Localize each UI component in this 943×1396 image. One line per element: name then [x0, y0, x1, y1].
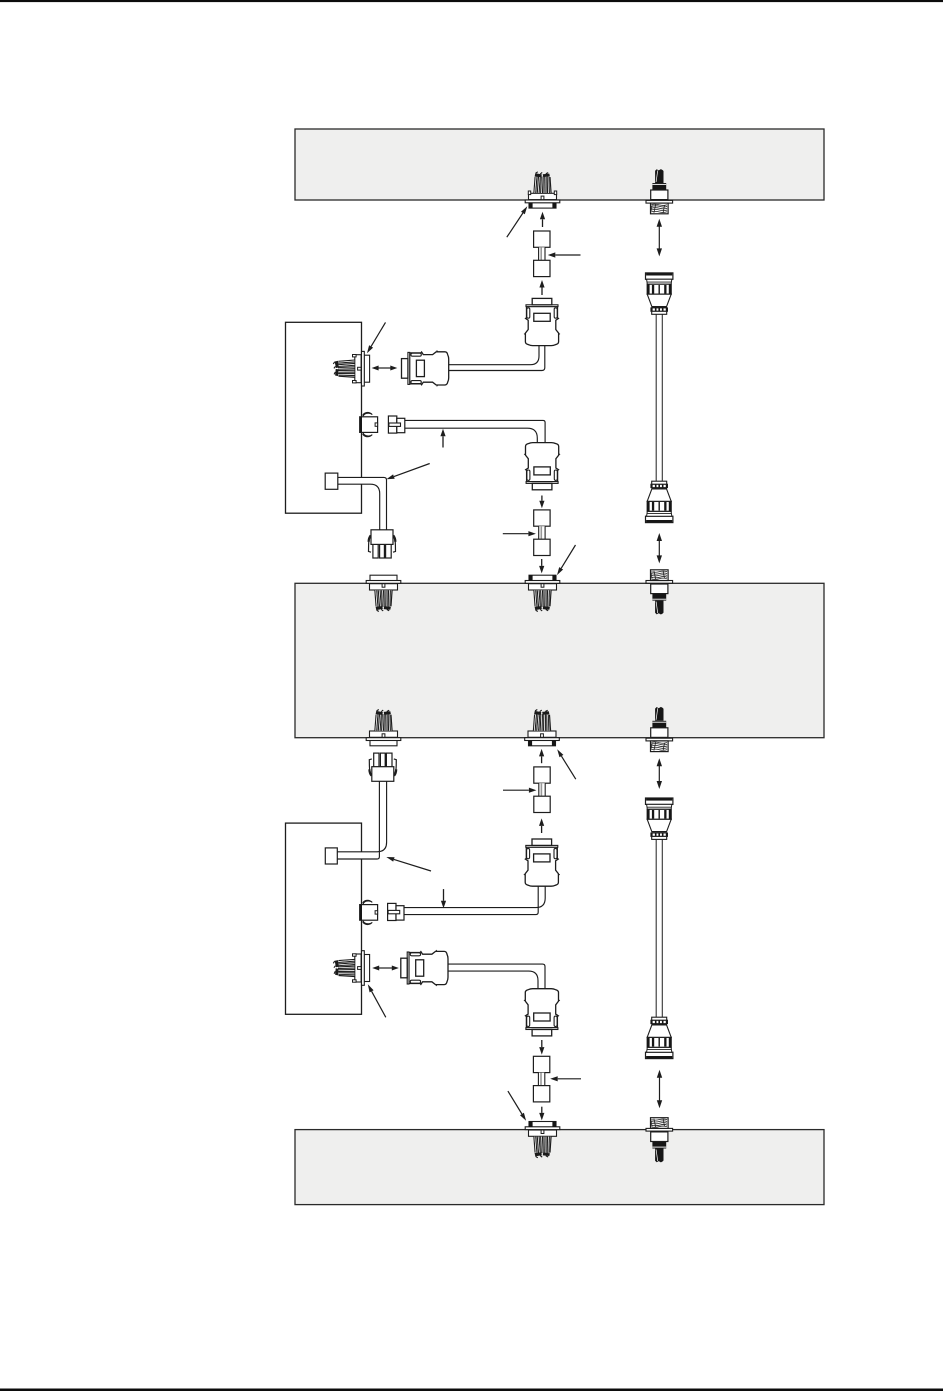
right interconnect cable (upper): [655, 313, 657, 482]
leader arrow D7: [368, 984, 386, 1017]
horizontal D-sub connector H1: [402, 350, 449, 386]
double arrow DH2: [372, 966, 399, 971]
module Q1 in upper accessory box: [325, 473, 338, 489]
coax bulkhead connector on middle unit bottom: [646, 707, 673, 752]
coax bulkhead connector on middle unit top: [646, 570, 673, 615]
ferrite clamp F4: [533, 1056, 549, 1102]
cable from horizontal D-sub to vertical D-sub V1: [444, 344, 542, 368]
insertion arrow A7: [539, 818, 544, 833]
double arrow DA1: [657, 219, 662, 257]
harness connector on lower accessory box edge: [333, 951, 369, 986]
harness connector on top unit (bottom edge): [525, 172, 560, 208]
leader arrow D1: [507, 206, 528, 237]
insertion arrow A1: [540, 212, 545, 227]
coax bulkhead connector on top unit: [646, 169, 673, 214]
top unit box: [295, 129, 824, 200]
leader arrow D4: [557, 545, 576, 575]
harness connector on bottom unit top edge: [525, 1122, 560, 1158]
coax bulkhead connector on bottom unit: [646, 1118, 673, 1163]
insertion arrow A8: [441, 889, 446, 908]
insertion arrow A10: [539, 1107, 544, 1121]
cable from 4-pin plug to module Q2: [337, 780, 383, 855]
leader arrow D6: [386, 857, 431, 871]
top page border bar: [0, 0, 943, 2]
harness connector on middle unit top edge, left: [366, 575, 401, 611]
ferrite clamp F3: [534, 767, 550, 813]
cable from 2-wire plug to vertical D-sub V2: [404, 424, 541, 445]
harness connector on middle unit bottom edge, left: [366, 710, 401, 746]
double arrow DA3: [657, 758, 662, 789]
2-wire plug, lower: [388, 903, 404, 920]
vertical D-sub connector V4: [524, 989, 560, 1036]
upper accessory box outline: [286, 322, 362, 513]
molded connector, upper cable top end: [646, 273, 673, 314]
ferrite clamp F1: [534, 231, 550, 277]
molded connector, lower cable bottom end: [646, 1017, 673, 1058]
4-pin plug, lower (facing up): [369, 753, 396, 781]
harness connector on upper accessory box edge: [333, 351, 369, 386]
4-pin plug, upper (facing down): [369, 530, 396, 558]
leader arrow H3: [503, 788, 536, 793]
double arrow DA4: [657, 1070, 662, 1109]
cable from module Q1 to 4-pin plug: [337, 481, 383, 531]
cable from vertical D-sub V3 to 2-wire plug: [404, 885, 542, 911]
board socket on upper accessory box: [360, 412, 378, 436]
insertion arrow A5: [440, 429, 445, 448]
double arrow DH1: [372, 366, 398, 371]
bottom page rule: [0, 1389, 943, 1392]
double arrow DA2: [657, 533, 662, 563]
lower accessory box outline: [286, 823, 362, 1014]
board socket on lower accessory box: [360, 900, 378, 924]
leader arrow D3: [386, 464, 429, 480]
insertion arrow A2: [539, 280, 544, 295]
harness connector on middle unit top edge, center: [525, 575, 560, 611]
insertion arrow A6: [539, 749, 544, 763]
right interconnect cable (lower): [655, 838, 657, 1018]
leader arrow D5: [557, 749, 576, 779]
molded connector, upper cable bottom end: [646, 481, 673, 522]
vertical D-sub connector V3: [524, 839, 560, 886]
insertion arrow A4: [539, 559, 544, 573]
insertion arrow A3: [539, 496, 544, 509]
leader arrow H1: [548, 252, 581, 257]
leader arrow H2: [503, 531, 536, 536]
middle unit box: [295, 583, 824, 737]
horizontal D-sub connector H2: [401, 950, 448, 986]
vertical D-sub connector V2: [524, 443, 560, 490]
module Q2 in lower accessory box: [325, 848, 337, 864]
2-wire plug, upper: [388, 416, 404, 433]
leader arrow H4: [550, 1076, 581, 1081]
vertical D-sub connector V1: [524, 298, 560, 345]
bottom unit box: [295, 1130, 824, 1205]
leader arrow D2: [367, 322, 386, 353]
cable from horizontal D-sub to vertical D-sub V4: [446, 968, 542, 990]
harness connector on middle unit bottom edge, center: [525, 710, 560, 746]
leader arrow D8: [508, 1091, 526, 1121]
molded connector, lower cable top end: [646, 798, 673, 839]
insertion arrow A9: [539, 1040, 544, 1055]
ferrite clamp F2: [534, 510, 550, 556]
